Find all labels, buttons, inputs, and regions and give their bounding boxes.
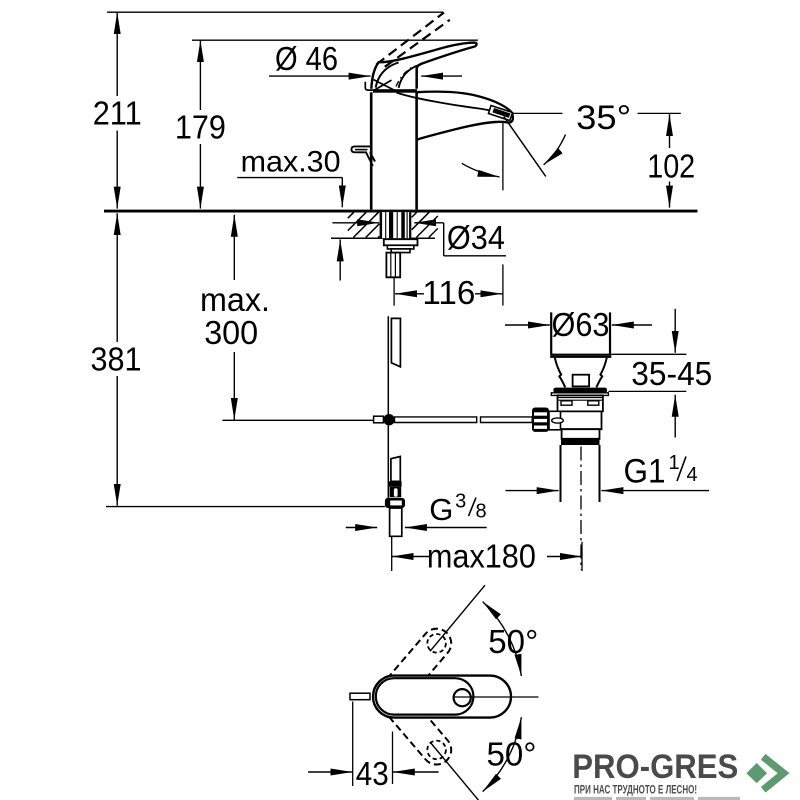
top view handle rotated dashed lobes xyxy=(376,629,451,765)
svg-text:max.: max. xyxy=(200,281,270,318)
svg-text:102: 102 xyxy=(647,148,695,185)
35 degree leader arrow xyxy=(544,135,566,165)
dimension 211 vertical xyxy=(93,12,142,208)
mounting nut and supply connection xyxy=(384,239,418,277)
logo green chevron xyxy=(763,757,783,790)
svg-text:381: 381 xyxy=(91,340,142,377)
svg-text:PRO-GRES: PRO-GRES xyxy=(572,748,738,786)
svg-text:35-45: 35-45 xyxy=(631,355,712,392)
supply centerline below fitting xyxy=(391,536,393,571)
dimension 116 horizontal xyxy=(394,264,503,311)
max300 reference line to rod pivot xyxy=(222,419,373,421)
pull rod knob behind faucet xyxy=(351,146,375,166)
svg-text:max180: max180 xyxy=(427,537,536,574)
handle base black band xyxy=(373,89,417,93)
dimension O46 of handle base xyxy=(269,40,462,88)
spout outlet centerline upper xyxy=(502,121,504,190)
svg-text:Ø34: Ø34 xyxy=(447,219,505,256)
svg-text:211: 211 xyxy=(93,95,142,132)
svg-text:Ø 46: Ø 46 xyxy=(275,40,338,77)
deck cross-section hatching xyxy=(348,212,438,237)
logo cropped bottom text strip xyxy=(574,797,740,800)
svg-text:G: G xyxy=(429,492,453,527)
svg-text:43: 43 xyxy=(356,755,389,792)
svg-text:3: 3 xyxy=(455,491,466,513)
spout aerator outlet xyxy=(489,106,513,121)
faucet handle lever xyxy=(371,43,476,91)
svg-text:4: 4 xyxy=(687,464,698,486)
handle base left lip xyxy=(365,82,373,90)
G3/8 supply fitting xyxy=(385,498,405,536)
dimension G 3/8 xyxy=(346,491,487,528)
dimension 381 vertical xyxy=(91,213,142,506)
svg-text:50°: 50° xyxy=(487,735,537,772)
102 top extension line xyxy=(512,112,563,114)
faucet spout xyxy=(397,92,513,140)
35 degree inclined line xyxy=(504,117,546,177)
top view centerline xyxy=(453,696,539,698)
drain rubber seal xyxy=(551,388,608,396)
pop-up pull rod lower xyxy=(388,425,401,500)
top view dashed circles xyxy=(427,634,446,759)
svg-text:179: 179 xyxy=(175,109,226,146)
horizontal lever rod to drain xyxy=(395,417,533,423)
381 bottom reference line xyxy=(106,506,385,508)
faucet body column xyxy=(371,92,416,209)
ref line top of raised handle xyxy=(107,11,444,13)
dimension G1 1/4 xyxy=(506,452,710,491)
svg-text:116: 116 xyxy=(422,274,475,311)
svg-text:G1: G1 xyxy=(624,453,666,491)
dimension 43 xyxy=(308,702,439,792)
svg-text:8: 8 xyxy=(476,501,487,523)
dimension max.300 vertical xyxy=(200,215,270,420)
top view pull rod stub xyxy=(350,693,370,700)
svg-text:ПРИ НАС ТРУДНОТО Е ЛЕСНО!: ПРИ НАС ТРУДНОТО Е ЛЕСНО! xyxy=(574,784,697,796)
handle raised position dashed xyxy=(376,13,450,67)
max.30 lower arrow below deck xyxy=(339,239,341,280)
dimension 102 vertical xyxy=(647,114,695,207)
pop-up pull rod upper xyxy=(388,316,400,414)
drain tailpipe xyxy=(561,445,600,570)
svg-text:50°: 50° xyxy=(488,623,538,660)
svg-text:300: 300 xyxy=(204,314,258,351)
threaded shank below deck xyxy=(380,212,412,238)
dimension O34 shank xyxy=(332,219,506,256)
dimension max180 horizontal xyxy=(392,537,582,574)
top view faucet body outline xyxy=(373,676,511,718)
svg-text:1: 1 xyxy=(669,452,680,474)
deck / counter line xyxy=(104,210,698,213)
drain plug flange and neck xyxy=(550,312,611,387)
top view lever button circle xyxy=(454,689,471,706)
drain body xyxy=(558,395,603,445)
svg-text:35°: 35° xyxy=(576,99,631,137)
dimension max.30 with leader arrow xyxy=(237,146,342,208)
svg-text:max.30: max.30 xyxy=(241,146,341,179)
50 degree boundary lines xyxy=(430,585,485,651)
svg-text:Ø63: Ø63 xyxy=(552,306,610,343)
dimension 179 vertical xyxy=(175,40,226,208)
drain adjusting knob xyxy=(532,408,563,432)
top view lever outline xyxy=(376,678,474,714)
swivel arc arrow xyxy=(462,163,500,177)
logo green diamond xyxy=(746,763,767,783)
rod ball joint xyxy=(374,414,395,425)
deck bottom line xyxy=(331,237,435,239)
ref line top of handle xyxy=(192,39,478,41)
dimension O63 flange xyxy=(505,306,652,343)
dimension 35-45 xyxy=(609,309,713,438)
50 degree arc arrows xyxy=(483,602,522,792)
